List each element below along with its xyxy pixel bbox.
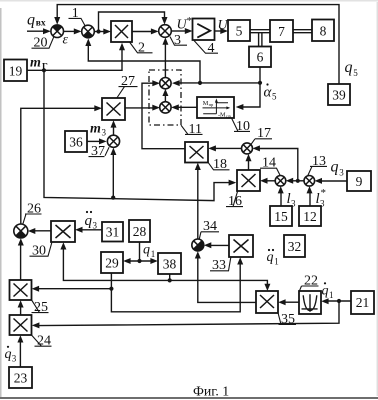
multiplier box 27	[102, 98, 125, 120]
wire summator 26 output up and right into box 27 left	[21, 105, 102, 224]
box 32	[284, 235, 305, 257]
label 14 with leader	[260, 156, 280, 176]
label 33 with leader	[210, 257, 231, 273]
svg-text:31: 31	[106, 225, 120, 240]
svg-text:*: *	[321, 187, 327, 199]
multiplier box 30	[51, 221, 75, 242]
svg-text:5: 5	[272, 92, 277, 102]
summator 17	[242, 143, 253, 154]
svg-text:8: 8	[320, 24, 327, 39]
wire multiplier 11b up to multiplier 11a	[162, 89, 168, 102]
label l3	[287, 191, 297, 209]
label 2 with leader	[130, 41, 153, 56]
svg-text:5: 5	[353, 68, 358, 78]
caption Fig. 1	[193, 384, 229, 399]
label 11 with leader	[181, 122, 203, 137]
wire feedforward: junction after 1 up and over into summator 3 top	[99, 12, 168, 32]
wire box 27 to multiplier 11b left	[125, 105, 160, 111]
multiplier circle 37	[107, 135, 119, 147]
wire box 15 up to summator 14, node l3	[278, 186, 284, 206]
label 4 with leader	[194, 41, 218, 56]
label dq1	[322, 282, 334, 300]
svg-text:*: *	[187, 15, 193, 27]
svg-text:3: 3	[339, 167, 344, 177]
wire double link box 5 to box 7	[250, 30, 270, 33]
svg-text:q: q	[27, 12, 35, 29]
summator 34 (lower-right half filled)	[192, 239, 204, 251]
label U*	[177, 15, 193, 33]
svg-text:q: q	[267, 250, 274, 265]
svg-text:3: 3	[102, 128, 107, 138]
wire box 22 to box 35 right	[278, 299, 299, 305]
multiplier circle 11a	[160, 78, 171, 89]
svg-text:q: q	[85, 213, 93, 229]
wire box 29 branch down and right into box 33 bottom	[111, 257, 243, 312]
box 38	[158, 253, 181, 274]
wire box 9 to summator 13, node q3	[315, 178, 347, 184]
multiplier box 2	[111, 21, 132, 42]
saturation box 10	[197, 97, 234, 119]
wire multiplier 11a up to summator 3 bottom	[162, 37, 168, 77]
label 34 with leader	[199, 219, 219, 239]
dash-dot block 11	[149, 70, 181, 125]
label 10 with leader	[232, 118, 251, 134]
label m3	[90, 122, 107, 138]
wire box 35 output left and up into summator 34 bottom	[195, 251, 256, 302]
svg-text:q: q	[345, 59, 353, 76]
label 18 with leader	[208, 157, 229, 172]
wire summator 20 to summator 1, node epsilon	[64, 28, 82, 34]
wire box 38 down, junction, left up into box 30 bottom	[60, 242, 171, 282]
wire summator 13 to summator 14, junction	[286, 178, 304, 184]
box 5	[228, 20, 250, 41]
multiplier box 25	[10, 280, 32, 300]
svg-text:Фиг. 1: Фиг. 1	[193, 384, 229, 399]
svg-text:m: m	[30, 56, 41, 71]
wire box 6 output alpha5 down to box 10 right	[236, 67, 262, 110]
label 3 with leader	[170, 33, 187, 48]
label 24 with leader	[32, 334, 52, 349]
wire box 30 to summator 26 right	[28, 228, 51, 234]
wire branch up from 13-14 line into summator 17 right	[253, 145, 298, 180]
multiplier box 18	[185, 142, 208, 163]
wire box 24 up to box 25 bottom	[18, 300, 24, 315]
wire box 18 output left and up into multiplier 11a left	[142, 80, 185, 149]
box 36	[65, 131, 87, 152]
label 37 with leader	[89, 144, 110, 159]
amplifier 4	[193, 19, 215, 41]
box 7	[270, 20, 293, 42]
box 12	[299, 206, 321, 226]
label 26 with leader	[23, 201, 42, 224]
wire box 38 branch right and down into box 35 top	[170, 280, 271, 291]
wire summator 17 to box 18 right	[208, 145, 242, 151]
box 29	[101, 252, 123, 273]
summator 26 (bottom sector filled)	[14, 224, 28, 238]
svg-text:21: 21	[356, 295, 370, 310]
svg-text:U: U	[218, 18, 229, 33]
wire m_G from box 19 to box 2 bottom	[27, 43, 125, 73]
label 30 with leader	[30, 243, 52, 259]
wire box 28 output q1 tee to box 29 and box 38	[123, 242, 158, 264]
svg-text:m: m	[90, 122, 101, 137]
wire box 16 up to summator 17 bottom	[246, 154, 252, 170]
svg-text:9: 9	[356, 174, 363, 189]
box 9	[347, 171, 371, 191]
box 23	[9, 367, 32, 388]
label ddq1	[267, 249, 279, 266]
box 8	[312, 20, 334, 42]
svg-text:Г: Г	[42, 62, 48, 72]
svg-text:3: 3	[93, 221, 98, 231]
summator 1 (bottom sector filled)	[82, 25, 95, 38]
wire box 21 to box 22, node dq1, junction	[321, 298, 351, 304]
wire box 33 to summator 34 right	[204, 242, 229, 248]
svg-text:1: 1	[329, 290, 334, 300]
wire box 10 output to multiplier 11b right	[171, 104, 197, 110]
box 39	[328, 84, 350, 105]
label l3*	[316, 187, 327, 209]
svg-text:38: 38	[163, 257, 177, 272]
label 17 with leader	[251, 126, 272, 144]
svg-text:ε: ε	[63, 33, 69, 48]
svg-text:пр: пр	[226, 113, 231, 118]
svg-text:-M: -M	[218, 112, 226, 119]
multiplier box 16	[237, 170, 260, 191]
wire dq1 branch down and left into box 24 right	[32, 301, 339, 328]
svg-text:вх: вх	[36, 19, 46, 29]
multiplier circle 11b	[160, 102, 171, 113]
wire q5 feedback: box 39 top to summator 20 top	[54, 5, 339, 84]
svg-text:q: q	[331, 159, 339, 176]
wire summator 14 to box 16 right	[260, 178, 275, 184]
wire alpha5 branch into multiplier 11a right	[172, 80, 260, 86]
svg-text:3: 3	[291, 199, 296, 209]
multiplier box 33	[229, 235, 253, 257]
label 22 with leader	[299, 273, 318, 291]
svg-text:23: 23	[14, 371, 28, 386]
wire box 31 to box 30, node ddq3	[75, 227, 102, 233]
svg-text:1: 1	[274, 256, 279, 266]
label epsilon	[63, 33, 69, 48]
wire box 2 to summator 3	[132, 28, 159, 34]
svg-text:29: 29	[105, 256, 119, 271]
svg-text:32: 32	[288, 239, 302, 254]
label m_G	[30, 56, 48, 72]
wire box 23 up to box 24 bottom, node dq3	[17, 335, 23, 367]
label 20 with leader	[32, 36, 54, 51]
wire m_G branch down and right to box 16 left	[44, 70, 236, 200]
box 21	[351, 291, 374, 314]
wire double link box 7 to box 8	[293, 30, 312, 33]
wire summator 34 up to box 18 bottom	[195, 163, 201, 239]
svg-text:3: 3	[12, 354, 17, 364]
label 13 with leader	[308, 154, 327, 176]
squarer box 22	[299, 291, 321, 314]
svg-text:3: 3	[320, 199, 325, 209]
summator 3	[159, 25, 172, 38]
wire box 25 up to summator 26 bottom	[18, 238, 24, 280]
svg-text:q: q	[322, 284, 329, 299]
svg-text:39: 39	[332, 88, 346, 103]
label alpha5 dot	[264, 83, 278, 101]
summator 14	[275, 176, 286, 187]
label q_vx	[27, 12, 46, 29]
wire summator 3 to amplifier 4, node U*	[171, 28, 192, 34]
wire box 29 down, junction, left into box 25 right	[32, 273, 114, 292]
label q5	[345, 59, 359, 78]
box 31	[102, 222, 123, 242]
svg-text:q: q	[143, 243, 150, 258]
wire double link down to box 6	[259, 33, 262, 47]
label ddq3	[85, 211, 98, 231]
label q3	[331, 159, 345, 178]
box 6	[249, 47, 271, 68]
wire q_vx input to summator 20	[27, 28, 51, 34]
svg-text:q: q	[5, 347, 12, 362]
label 16 with leader	[226, 191, 243, 209]
svg-text:36: 36	[69, 135, 83, 150]
label q1	[143, 243, 155, 260]
label dq3	[5, 346, 17, 364]
svg-text:5: 5	[236, 24, 243, 39]
svg-text:7: 7	[278, 24, 285, 39]
box 28	[129, 220, 150, 242]
label 1 with leader	[69, 6, 86, 26]
label 25 with leader	[32, 300, 49, 315]
wire box 36 to multiplier 37, node m3	[87, 138, 107, 144]
svg-text:1: 1	[151, 249, 156, 259]
summator 13	[304, 176, 315, 187]
multiplier box 35	[256, 291, 278, 313]
wire multiplier 37 to box 27 bottom	[111, 120, 117, 135]
svg-text:15: 15	[274, 209, 288, 224]
label 35 with leader	[278, 312, 296, 327]
wire m_G branch up into multiplier 37 bottom	[110, 148, 116, 198]
wire amplifier 4 to box 5, node U	[215, 28, 229, 34]
label 27 with leader	[117, 74, 138, 98]
multiplier box 24	[10, 315, 32, 335]
svg-text:19: 19	[9, 64, 23, 79]
wire alpha5 branch up and left into summator 1 bottom	[85, 39, 200, 83]
wire box 12 up to summator 13, node l3*	[307, 186, 313, 206]
svg-text:пр: пр	[209, 102, 214, 107]
box 19	[4, 60, 27, 82]
wire summator 1 to multiplier box 2, junction node	[94, 29, 111, 35]
summator 20 (top sector filled)	[51, 25, 64, 38]
svg-text:6: 6	[257, 50, 264, 65]
svg-text:28: 28	[133, 224, 147, 239]
box 15	[270, 206, 292, 226]
svg-text:12: 12	[303, 209, 317, 224]
label U	[218, 18, 229, 33]
